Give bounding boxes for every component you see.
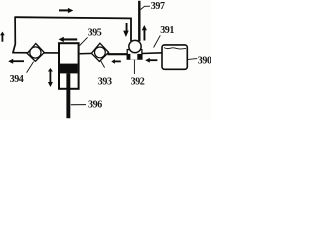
svg-text:397: 397 [151, 1, 165, 12]
svg-text:391: 391 [160, 25, 174, 36]
svg-text:396: 396 [88, 100, 102, 111]
svg-text:392: 392 [131, 77, 145, 88]
svg-text:390: 390 [198, 56, 211, 67]
svg-text:393: 393 [98, 77, 112, 88]
svg-text:395: 395 [88, 27, 102, 38]
svg-text:394: 394 [10, 74, 24, 85]
